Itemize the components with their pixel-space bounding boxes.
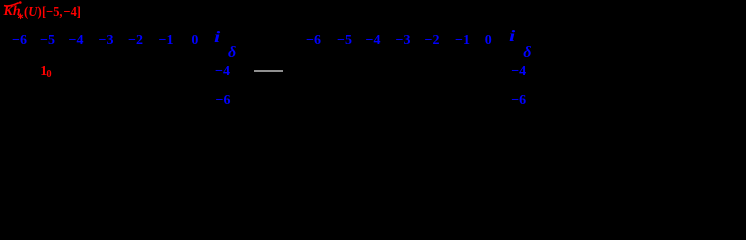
- right axis label i: [509, 29, 515, 45]
- right axis label -1: [455, 34, 470, 48]
- right axis label -6: [306, 34, 321, 48]
- left axis label -1: [159, 34, 174, 48]
- left axis label 0: [191, 34, 198, 48]
- left axis label -6: [12, 34, 27, 48]
- red generator label 1_0: [40, 65, 47, 79]
- (U): [24, 6, 42, 20]
- right row label -6: [511, 94, 526, 108]
- right axis label -4: [366, 34, 381, 48]
- right axis label delta: [523, 45, 531, 61]
- right axis label -2: [425, 34, 440, 48]
- right axis label 0: [485, 34, 492, 48]
- left axis label -3: [99, 34, 114, 48]
- gray dash between diagrams: [254, 70, 284, 72]
- left axis label i: [214, 30, 220, 46]
- right axis label -5: [337, 34, 352, 48]
- left row label -6: [216, 94, 231, 108]
- left axis label -4: [69, 34, 84, 48]
- left row label -4: [215, 65, 230, 79]
- left axis label delta: [228, 45, 236, 61]
- left axis label -5: [40, 34, 55, 48]
- [-5,-4]: [42, 6, 81, 20]
- right row label -4: [511, 65, 526, 79]
- left axis label -2: [128, 34, 143, 48]
- Kh italic: [4, 5, 21, 19]
- tilde accent over Kh: [3, 1, 23, 9]
- right axis label -3: [396, 34, 411, 48]
- subscript asterisk: [17, 12, 24, 21]
